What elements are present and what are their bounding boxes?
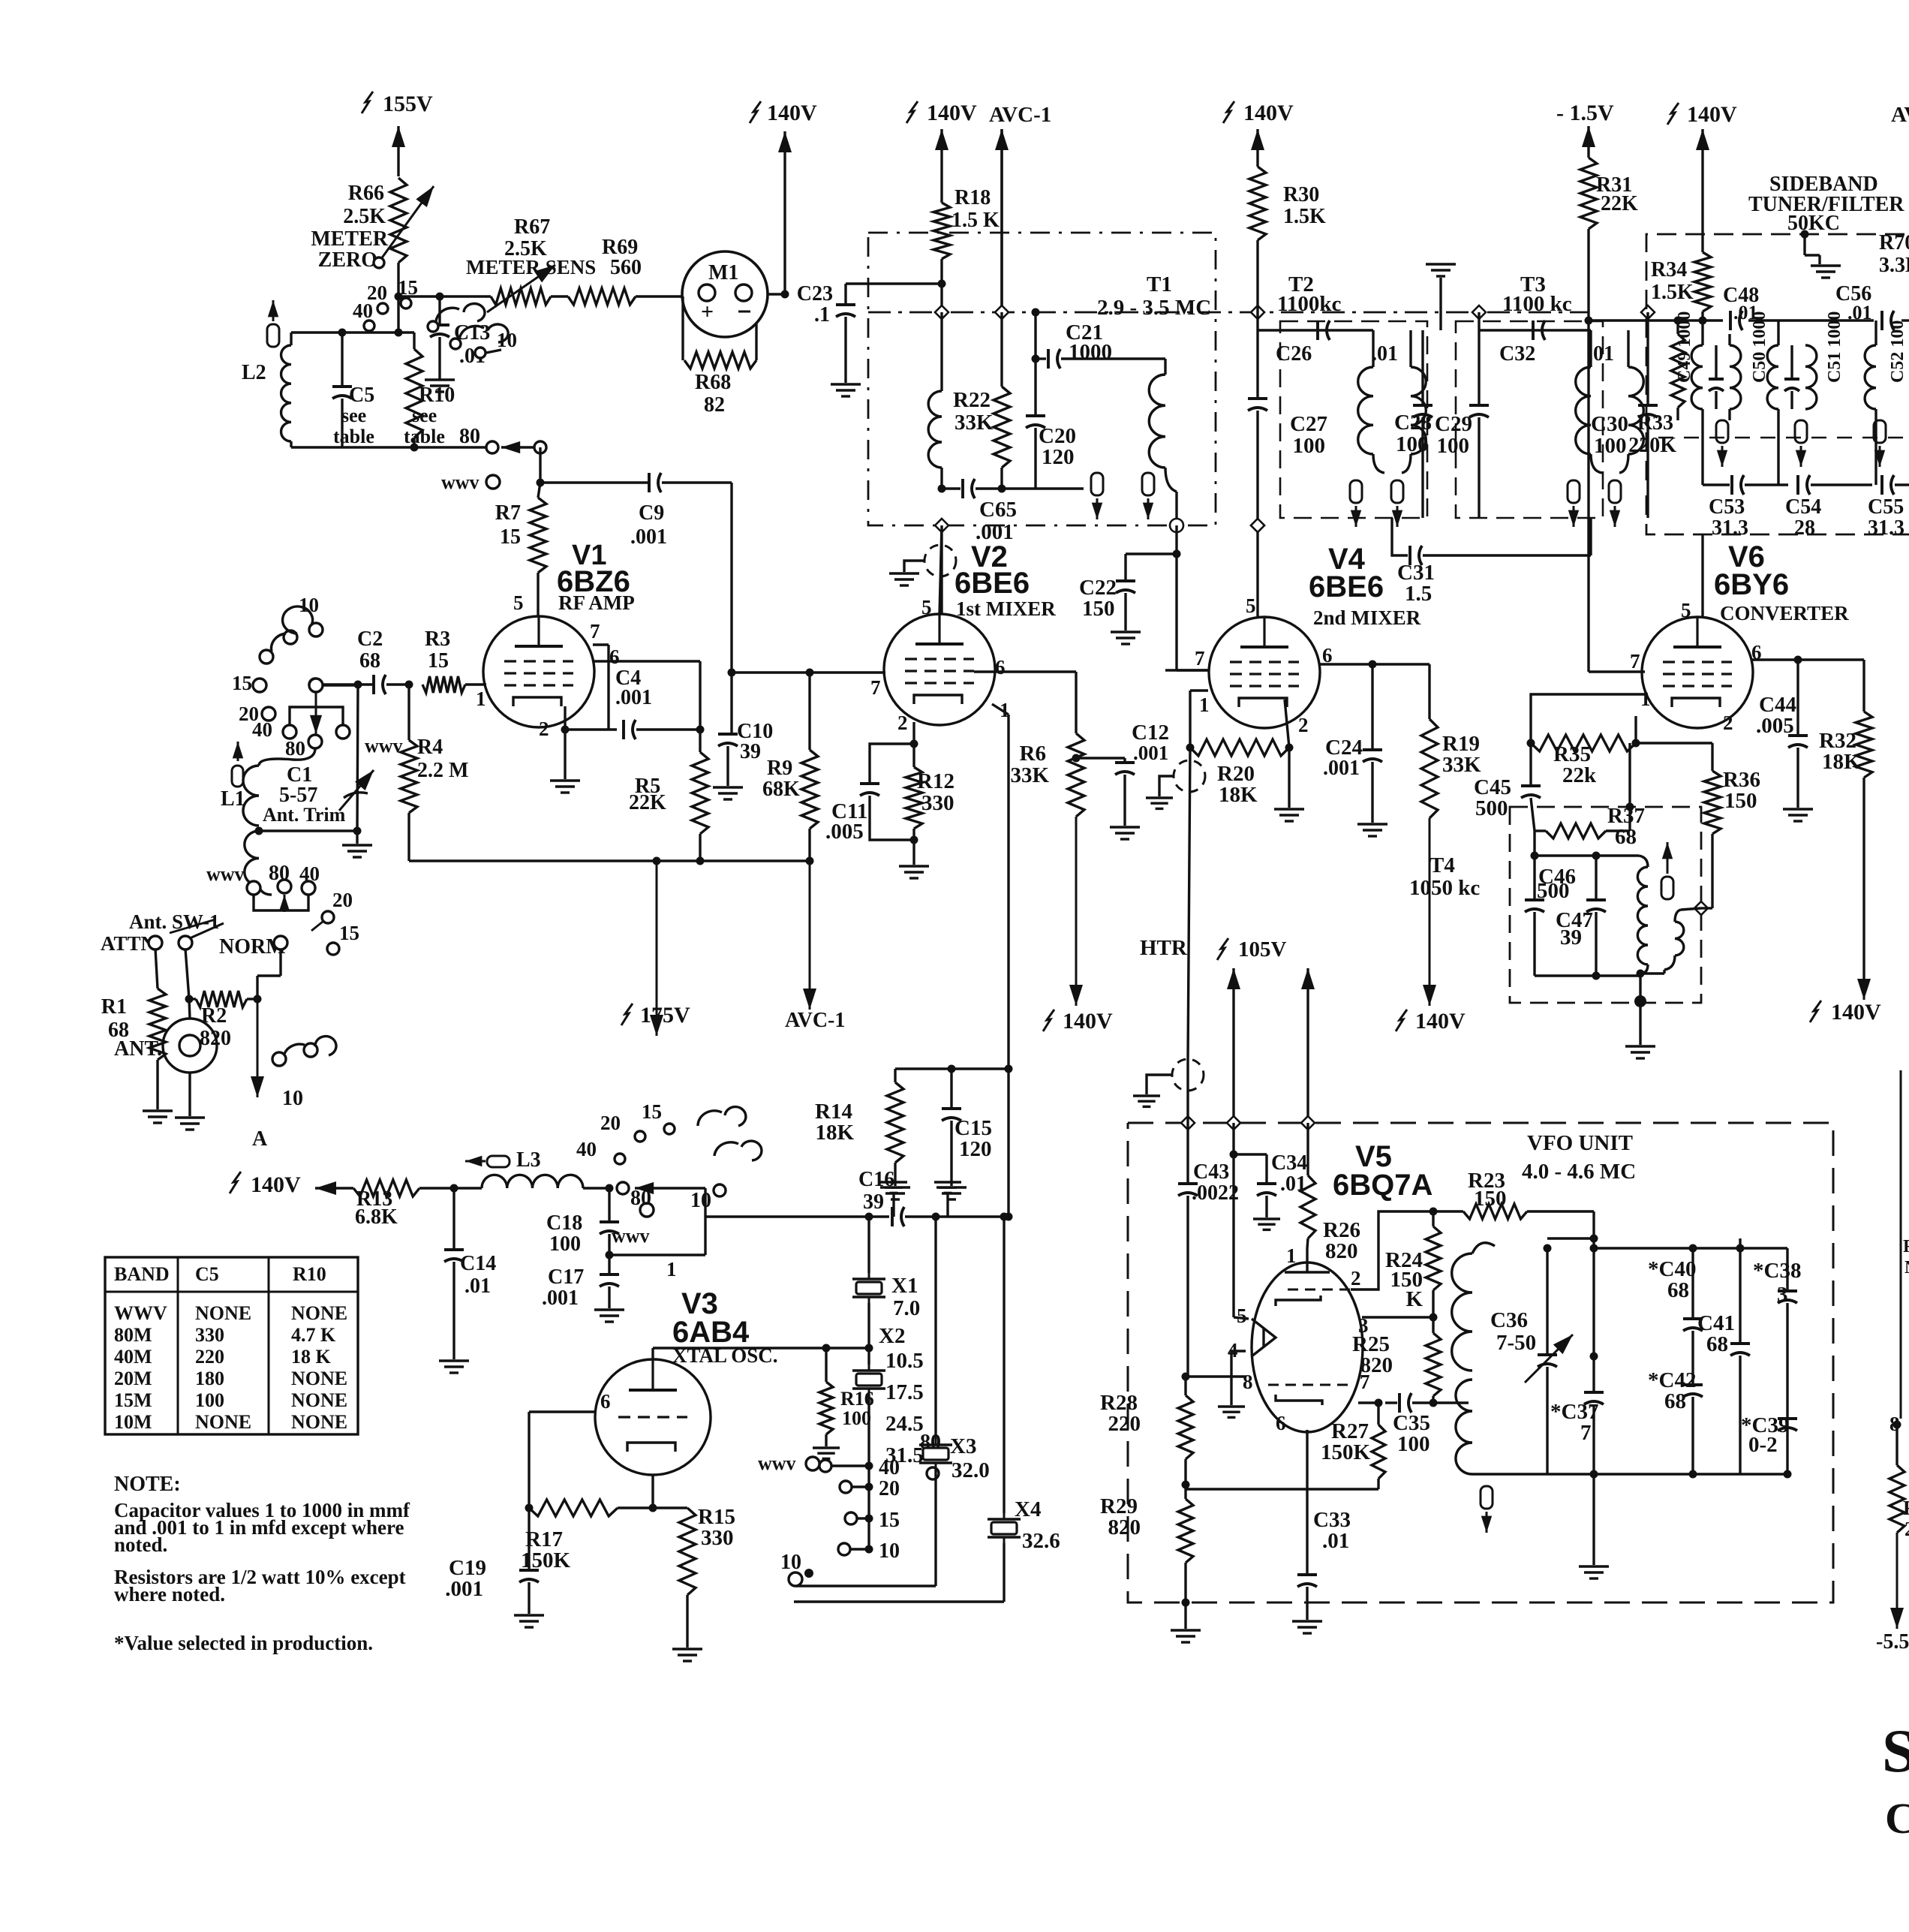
capacitor C56 .01 <box>1835 282 1894 330</box>
svg-text:22K: 22K <box>629 791 666 814</box>
capacitor C17 .001 <box>542 1255 624 1322</box>
tube V3 6AB4 XTAL OSC <box>595 1258 778 1475</box>
wire V4 pin5 <box>1251 519 1264 617</box>
resistor R15 330 <box>672 1505 735 1661</box>
svg-text:wwv: wwv <box>365 735 403 757</box>
capacitor C55 31.3 <box>1868 475 1909 540</box>
svg-text:*Value selected in production.: *Value selected in production. <box>114 1632 373 1654</box>
wire V6 pin5 <box>1701 534 1703 617</box>
wire VFO right top <box>1594 1244 1787 1253</box>
svg-text:18K: 18K <box>815 1121 854 1145</box>
svg-text:R22: R22 <box>953 388 991 412</box>
svg-text:2: 2 <box>539 718 549 740</box>
svg-text:18K: 18K <box>1219 783 1258 807</box>
svg-text:R10: R10 <box>293 1263 326 1285</box>
wire V5 pin3 <box>1362 1290 1438 1333</box>
wire junction to coil bus <box>397 330 399 333</box>
svg-text:7-50: 7-50 <box>1496 1331 1536 1355</box>
capacitor C40 68 <box>1648 1248 1703 1370</box>
capacitor C65 .001 <box>942 479 1084 544</box>
svg-text:R: R <box>1903 1497 1909 1519</box>
svg-text:68: 68 <box>359 649 380 673</box>
resistor R6 33K <box>1010 733 1084 817</box>
svg-text:.001: .001 <box>1133 742 1168 764</box>
slug T1 secondary <box>1142 473 1154 519</box>
svg-text:10: 10 <box>497 329 517 351</box>
svg-text:7: 7 <box>590 620 600 642</box>
svg-text:155V: 155V <box>383 92 433 116</box>
svg-text:560: 560 <box>610 256 642 279</box>
contact row wwv 80 40 <box>206 862 320 912</box>
resistor right edge <box>1889 1465 1909 1540</box>
svg-text:4.7 K: 4.7 K <box>291 1324 336 1346</box>
svg-text:1.5 K: 1.5 K <box>951 209 1000 232</box>
resistor R70 3.3K <box>1879 231 1909 277</box>
resistor R32 18K <box>1819 712 1872 778</box>
node T1 bottom <box>935 519 1183 532</box>
svg-text:5: 5 <box>1246 594 1256 617</box>
svg-text:R33: R33 <box>1637 411 1673 435</box>
resistor R17 150K <box>521 1412 687 1572</box>
svg-text:6: 6 <box>995 656 1006 679</box>
capacitor C14 .01 <box>439 1188 496 1373</box>
rail 105V <box>1217 937 1315 1130</box>
svg-text:140V: 140V <box>1687 102 1737 127</box>
label C51 rotated <box>1825 311 1844 383</box>
filter coil 1 <box>1691 320 1741 485</box>
power rail 140V (R18) <box>906 101 977 203</box>
svg-text:18 K: 18 K <box>291 1346 332 1368</box>
switch contacts X2 <box>819 1456 900 1563</box>
band contact 40 <box>252 718 296 741</box>
svg-text:R68: R68 <box>695 371 731 394</box>
crystal X2 <box>852 1348 885 1466</box>
svg-text:K: K <box>1405 1287 1423 1311</box>
wire R66 to junction <box>397 263 399 296</box>
svg-text:HTR: HTR <box>1140 936 1188 960</box>
svg-text:6: 6 <box>1276 1412 1286 1434</box>
svg-text:+: + <box>701 299 714 324</box>
wire C45 into T4 <box>1531 798 1535 831</box>
svg-text:see: see <box>412 405 437 426</box>
resistor R3 15 <box>405 627 487 693</box>
slug T4 <box>1661 842 1673 899</box>
resistor R33 220K <box>1628 317 1685 458</box>
svg-text:C36: C36 <box>1490 1308 1528 1332</box>
wire V4 grid down <box>1188 748 1190 1061</box>
filter wire <box>1589 319 1909 321</box>
node R13 L3 <box>419 1184 458 1193</box>
svg-text:R30: R30 <box>1283 183 1319 206</box>
node diamonds on bus <box>935 305 1655 319</box>
svg-text:1: 1 <box>1286 1244 1297 1267</box>
capacitor C46 500 <box>1525 856 1576 976</box>
svg-text:120: 120 <box>1042 445 1075 469</box>
node T2 bottom <box>1251 519 1264 532</box>
svg-text:105V: 105V <box>1238 937 1287 961</box>
resistor R23 150 <box>1433 1169 1527 1219</box>
svg-text:RF AMP: RF AMP <box>558 591 635 614</box>
svg-text:L3: L3 <box>516 1148 541 1172</box>
svg-text:NONE: NONE <box>291 1302 347 1324</box>
node AVC junction <box>806 857 814 865</box>
tube V1 6BZ6 RF AMP <box>476 540 635 740</box>
wire V3 pin6 <box>529 1410 595 1413</box>
node T4 ground <box>1625 995 1655 1058</box>
capacitor C24 .001 <box>1323 664 1387 836</box>
rail AVC-1 top <box>989 103 1051 312</box>
svg-text:1: 1 <box>1640 688 1651 710</box>
wire contact to C2 <box>323 684 358 686</box>
svg-text:150: 150 <box>1724 789 1757 813</box>
svg-text:1.5K: 1.5K <box>1283 205 1326 228</box>
capacitor C45 500 <box>1474 743 1541 820</box>
rail 140V below R6 <box>1043 817 1113 1034</box>
svg-text:C54: C54 <box>1785 495 1821 519</box>
svg-text:C5: C5 <box>349 384 374 407</box>
wire coil bottom bus <box>291 425 492 452</box>
svg-text:R10: R10 <box>419 384 455 407</box>
svg-text:40: 40 <box>353 299 373 322</box>
svg-text:1.5: 1.5 <box>1405 582 1432 606</box>
resistor R27 150K <box>1321 1403 1385 1489</box>
svg-text:40: 40 <box>252 718 272 741</box>
capacitor C12 .001 <box>1072 721 1169 839</box>
svg-text:140V: 140V <box>1415 1009 1466 1034</box>
coil T4 primary <box>1637 856 1649 978</box>
svg-text:AVC-1: AVC-1 <box>989 103 1051 127</box>
svg-text:6BE6: 6BE6 <box>1309 570 1384 603</box>
svg-text:6: 6 <box>609 646 620 668</box>
crystal X4 32.6 <box>988 1217 1060 1602</box>
svg-text:1: 1 <box>666 1258 677 1280</box>
resistor R22 33K <box>953 312 1010 493</box>
svg-text:Ant. Trim: Ant. Trim <box>263 804 346 826</box>
resistor R28 220 <box>1100 1373 1193 1489</box>
resistor R69 560 <box>568 236 642 305</box>
node T4 top <box>1531 831 1640 860</box>
wire coil top bus <box>291 329 414 337</box>
capacitor C19 .001 <box>445 1508 544 1627</box>
tube V6 6BY6 CONVERTER <box>1630 540 1849 734</box>
svg-text:68: 68 <box>1615 825 1637 849</box>
resistor R37 68 <box>1607 804 1645 849</box>
svg-text:39: 39 <box>1560 925 1582 949</box>
ground V1 cathode <box>550 730 580 793</box>
rail AVC-1 down <box>785 861 845 1032</box>
svg-text:5: 5 <box>1237 1305 1247 1327</box>
svg-text:METER SENS: METER SENS <box>466 256 596 278</box>
crystal bus <box>705 1168 1009 1226</box>
svg-text:R12: R12 <box>917 769 954 793</box>
svg-text:.005: .005 <box>1756 714 1794 738</box>
resistor R19 33K <box>1421 664 1481 818</box>
svg-text:32.6: 32.6 <box>1022 1529 1060 1553</box>
svg-text:150: 150 <box>1474 1187 1507 1211</box>
coil T2 secondary <box>1402 330 1426 473</box>
antenna switch SW-1 <box>101 910 287 958</box>
band contact 20 <box>239 703 275 725</box>
capacitor C18 100 <box>546 1187 654 1259</box>
svg-text:AVC: AVC <box>1891 103 1909 127</box>
svg-text:R4: R4 <box>417 736 443 759</box>
inductor L1 lower <box>245 831 272 895</box>
wire R18 down <box>938 259 946 312</box>
resistor R10 see table <box>404 333 455 447</box>
resistor R67 2.5K METER SENS <box>466 215 596 312</box>
svg-text:wwv: wwv <box>758 1452 796 1474</box>
rail -5.5 right <box>1876 1533 1909 1654</box>
svg-text:C50 1000: C50 1000 <box>1750 311 1769 383</box>
svg-text:100: 100 <box>1437 434 1470 458</box>
svg-text:1100 kc: 1100 kc <box>1502 292 1572 316</box>
capacitor C13 .01 <box>425 293 490 393</box>
ground between T2 T3 <box>1426 264 1456 330</box>
capacitor C21 1000 <box>1032 320 1166 369</box>
capacitor C54 28 <box>1785 475 1872 540</box>
svg-text:0-2: 0-2 <box>1748 1433 1778 1457</box>
svg-text:40M: 40M <box>114 1346 152 1368</box>
band switch contacts 20/15/40 <box>353 276 418 331</box>
svg-text:see: see <box>341 405 366 426</box>
switch arrow down <box>310 692 322 734</box>
coil T1 primary <box>928 312 945 493</box>
node L3 C18 <box>606 1182 706 1217</box>
svg-text:10: 10 <box>282 1087 303 1110</box>
svg-text:6: 6 <box>600 1390 611 1413</box>
capacitor C39 0-2 <box>1741 1413 1797 1479</box>
svg-text:L1: L1 <box>221 787 245 811</box>
transformer T1 box <box>868 233 1216 525</box>
wire T3 input <box>1479 312 1591 330</box>
svg-text:wwv: wwv <box>441 471 480 493</box>
svg-text:X4: X4 <box>1015 1497 1041 1521</box>
capacitor C26 .01 <box>1276 320 1398 366</box>
svg-text:L2: L2 <box>242 361 266 384</box>
VFO box <box>1128 1123 1833 1602</box>
rail A <box>251 995 268 1151</box>
svg-text:100: 100 <box>842 1407 871 1429</box>
svg-text:1st MIXER: 1st MIXER <box>956 597 1056 620</box>
wire bottom bus V1 <box>409 857 810 865</box>
svg-text:140V: 140V <box>927 101 977 125</box>
svg-text:140V: 140V <box>1831 1000 1881 1025</box>
capacitor C41 68 <box>1697 1238 1750 1474</box>
svg-text:C28: C28 <box>1394 411 1432 435</box>
capacitor C43 .0022 <box>1178 1061 1239 1377</box>
svg-text:WWV: WWV <box>114 1302 167 1324</box>
ground V4 cathode <box>1274 748 1304 821</box>
svg-text:R70: R70 <box>1879 231 1909 254</box>
svg-text:C52 100: C52 100 <box>1888 320 1907 383</box>
wire R27 to R29 node <box>1186 1488 1378 1490</box>
slug L1 <box>232 742 243 787</box>
filter coil 3 <box>1865 320 1876 485</box>
slug VFO coil <box>1481 1486 1493 1533</box>
svg-text:15: 15 <box>428 649 449 673</box>
capacitor C34 .01 <box>1230 1151 1308 1230</box>
filter slugs <box>1716 420 1886 467</box>
svg-text:NOTE:: NOTE: <box>114 1473 181 1496</box>
wire V5 grid8 <box>1186 1375 1246 1377</box>
band switch arm 80 <box>486 441 546 453</box>
svg-text:C29: C29 <box>1435 412 1472 436</box>
svg-text:.005: .005 <box>825 820 864 844</box>
svg-text:220: 220 <box>195 1346 224 1368</box>
svg-text:24.5: 24.5 <box>885 1412 924 1436</box>
svg-text:180: 180 <box>195 1368 224 1389</box>
resistor R12 330 <box>906 740 954 844</box>
rotary coil segment <box>428 304 517 358</box>
resistor R4 2.2M <box>365 685 468 861</box>
wire V6 cathode <box>1634 716 1637 743</box>
capacitor C31 1.5 <box>1392 518 1591 606</box>
svg-text:330: 330 <box>701 1526 734 1550</box>
svg-text:100: 100 <box>1293 434 1326 458</box>
svg-text:.001: .001 <box>976 520 1014 544</box>
svg-text:2: 2 <box>1723 712 1733 734</box>
coil T1 secondary <box>1149 359 1177 525</box>
resistor R66 2.5K METER ZERO <box>311 178 434 272</box>
svg-text:T1: T1 <box>1147 272 1172 296</box>
capacitor C37 7 <box>1550 1392 1604 1479</box>
capacitor C29 100 <box>1435 330 1489 518</box>
band contacts near L3 <box>576 1100 675 1164</box>
coil T3 primary <box>1576 330 1602 473</box>
svg-text:NONE: NONE <box>195 1302 251 1324</box>
crystal X3 32.0 <box>919 1217 990 1586</box>
svg-text:C26: C26 <box>1276 342 1312 366</box>
svg-text:table: table <box>404 426 445 447</box>
power rail 140V (R13) <box>230 1172 353 1197</box>
svg-text:39: 39 <box>863 1190 884 1214</box>
wire R7 bus to C9 <box>540 481 650 483</box>
capacitor C15 120 <box>936 1065 992 1200</box>
capacitor C44 .005 <box>1756 660 1813 821</box>
svg-text:R6: R6 <box>1020 742 1046 766</box>
svg-text:X3: X3 <box>950 1434 976 1458</box>
svg-text:C53: C53 <box>1709 495 1745 519</box>
resistor R36 150 <box>1636 743 1760 834</box>
ghost shield V2 <box>889 545 956 585</box>
wire VFO top <box>1547 1235 1598 1243</box>
resistor R37 68 zigzag <box>1535 823 1630 838</box>
svg-text:33K: 33K <box>1010 763 1049 787</box>
wire V2 pin5 lead <box>940 525 942 614</box>
svg-text:6BE6: 6BE6 <box>954 567 1030 600</box>
svg-text:1000: 1000 <box>1069 340 1112 364</box>
slug T3 <box>1568 480 1621 527</box>
wire switch to R7 <box>537 447 545 487</box>
ground R12 <box>899 840 929 878</box>
resistor R2 820 <box>189 991 247 1050</box>
capacitor C30 100 <box>1591 312 1658 518</box>
svg-text:7: 7 <box>1195 647 1205 670</box>
band contact 15 <box>232 672 266 694</box>
svg-text:NONE: NONE <box>291 1368 347 1389</box>
svg-text:C51 1000: C51 1000 <box>1825 311 1844 383</box>
wire VFO bottom <box>1472 1473 1787 1475</box>
svg-text:BAND: BAND <box>114 1263 170 1285</box>
svg-text:.0022: .0022 <box>1192 1181 1239 1205</box>
svg-text:330: 330 <box>921 791 954 815</box>
capacitor C5 see table <box>332 333 374 447</box>
svg-text:20: 20 <box>332 889 353 911</box>
svg-text:68: 68 <box>1706 1332 1728 1356</box>
rail 140V below R32 <box>1810 778 1881 1025</box>
resistor R1 68 <box>101 949 173 1123</box>
svg-text:C65: C65 <box>979 498 1017 522</box>
coil T2 primary <box>1358 330 1384 473</box>
svg-text:R3: R3 <box>425 627 450 651</box>
svg-text:68K: 68K <box>762 778 800 801</box>
grid contact V1 <box>309 679 323 692</box>
capacitor C32 .01 <box>1499 320 1614 366</box>
wire R30 down <box>1256 240 1258 330</box>
svg-text:CONVERTER: CONVERTER <box>1720 602 1849 624</box>
band table <box>105 1257 358 1434</box>
resistor R14 18K <box>815 1069 1009 1199</box>
svg-text:22K: 22K <box>1601 192 1638 215</box>
svg-text:10: 10 <box>780 1551 801 1574</box>
inductor L1 upper <box>221 748 315 826</box>
resistor R13 6.8K <box>353 1180 419 1229</box>
contact bracket <box>290 707 350 739</box>
svg-text:80M: 80M <box>114 1324 152 1346</box>
svg-text:20: 20 <box>600 1112 621 1134</box>
svg-text:.1: .1 <box>814 303 830 327</box>
svg-text:C17: C17 <box>548 1265 584 1289</box>
resistor R16 100 <box>813 1344 874 1459</box>
svg-text:1050 kc: 1050 kc <box>1409 876 1480 900</box>
coil T4 secondary <box>1640 910 1684 974</box>
label sideband filter <box>1748 173 1904 235</box>
transformer T3 box <box>1456 272 1603 518</box>
svg-text:7: 7 <box>1580 1421 1592 1445</box>
svg-text:2nd MIXER: 2nd MIXER <box>1313 606 1421 629</box>
svg-text:33K: 33K <box>954 411 994 435</box>
svg-text:S: S <box>1882 1717 1909 1785</box>
svg-text:N: N <box>1904 1258 1909 1277</box>
svg-text:31.3: 31.3 <box>1712 516 1748 540</box>
svg-text:175V: 175V <box>640 1003 690 1028</box>
svg-text:17.5: 17.5 <box>885 1380 924 1404</box>
wire C9 corner down <box>728 483 736 677</box>
resistor R5 22K <box>629 730 708 861</box>
svg-text:C43: C43 <box>1193 1160 1229 1184</box>
svg-text:8: 8 <box>1243 1371 1253 1393</box>
capacitor C35 100 <box>1385 1393 1433 1456</box>
svg-text:820: 820 <box>1325 1239 1358 1263</box>
wire V2 pin1 down <box>992 704 1013 1073</box>
svg-text:AVC-1: AVC-1 <box>785 1009 845 1032</box>
svg-text:C2: C2 <box>357 627 383 651</box>
wire R23 to C37 line <box>1527 1211 1598 1392</box>
svg-text:140V: 140V <box>1243 101 1294 125</box>
wire V5 pin4 ground <box>1218 1351 1246 1417</box>
svg-text:7.0: 7.0 <box>893 1296 920 1320</box>
rotary coil near C16 <box>690 1107 762 1212</box>
svg-text:2.9 - 3.5 MC: 2.9 - 3.5 MC <box>1097 296 1211 320</box>
svg-text:140V: 140V <box>251 1172 301 1197</box>
svg-text:10M: 10M <box>114 1411 152 1433</box>
svg-text:C34: C34 <box>1271 1151 1307 1175</box>
trimmer C1 5-57 Ant. Trim <box>263 685 374 831</box>
svg-text:150: 150 <box>1082 597 1115 621</box>
band contact 15 lower <box>327 922 359 955</box>
svg-text:2: 2 <box>1351 1267 1361 1290</box>
big letter S <box>1882 1717 1909 1785</box>
